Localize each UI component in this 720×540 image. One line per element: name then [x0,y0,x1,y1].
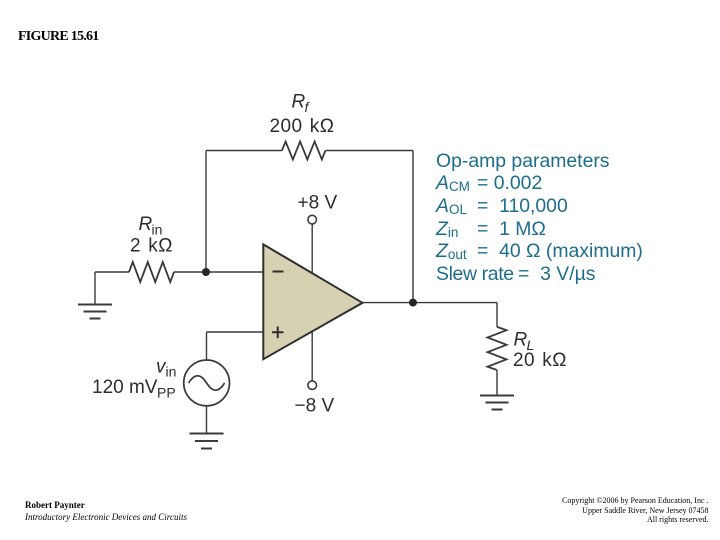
svg-text:+8 V: +8 V [298,193,338,214]
copyright notice [562,496,709,525]
wire load top vertical [496,303,498,327]
op-amp parameters text block [436,151,643,286]
terminal +8V [308,215,317,224]
wire noninverting input [207,331,264,333]
wire input ground drop [94,272,96,304]
svg-text:f: f [305,99,311,115]
svg-text:R: R [139,214,153,235]
wire input to inverting input [174,271,263,273]
node B (output junction) [409,299,417,307]
op-amp U1 [263,244,362,359]
op-amp inverting sign [273,271,284,273]
figure caption [18,29,98,45]
op-amp noninverting sign [272,327,284,339]
wire feedback top right segment [326,150,414,152]
wire feedback top left segment [206,150,282,152]
wire feedback right vertical [412,151,414,303]
wire source bottom vertical [206,406,208,433]
svg-text:2 kΩ: 2 kΩ [130,236,173,257]
resistor RL [488,327,507,370]
wire negative supply [311,332,313,381]
ground (input) [78,305,112,319]
terminal -8V [308,381,317,390]
wire positive supply [311,224,313,273]
resistor Rf [282,142,325,160]
ground (load) [480,396,514,410]
svg-text:20 kΩ: 20 kΩ [513,350,567,371]
svg-text:PP: PP [157,385,176,401]
source Vin circle [184,360,230,406]
wire output [363,302,498,304]
svg-text:−8 V: −8 V [295,396,335,417]
wire source top vertical [206,332,208,360]
svg-text:in: in [166,364,177,380]
resistor Rin [129,262,174,282]
svg-text:200 kΩ: 200 kΩ [270,116,335,137]
wire input left segment [95,271,129,273]
wire load bottom vertical [496,370,498,395]
svg-text:120 mV: 120 mV [92,377,158,398]
ground (source) [190,434,224,449]
svg-text:R: R [514,330,528,351]
source sine [189,376,225,391]
node A (inverting input junction) [202,268,210,276]
svg-text:R: R [292,92,306,113]
wire feedback left vertical [205,151,207,273]
author credit [25,500,187,523]
